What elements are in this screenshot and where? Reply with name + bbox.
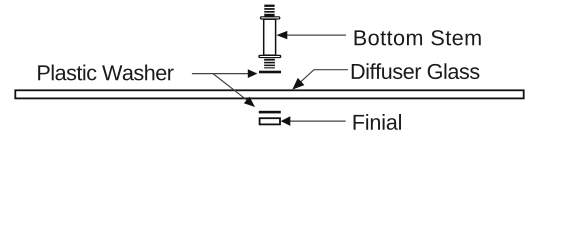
label Diffuser Glass: [352, 63, 480, 79]
leader arrow to diffuser glass: [292, 70, 348, 90]
leader arrow to upper washer: [192, 69, 258, 78]
bottom stem top threads: [264, 5, 274, 17]
leader arrow to lower washer: [213, 74, 255, 107]
bottom stem bottom threads: [264, 59, 275, 69]
diffuser glass: [15, 90, 523, 98]
leader arrow to bottom stem: [276, 31, 346, 39]
bottom stem top collar: [260, 16, 281, 19]
plastic washer (upper): [259, 71, 281, 74]
label Finial: [354, 114, 401, 130]
leader arrow to finial: [281, 116, 346, 126]
bottom stem tube body: [264, 19, 276, 55]
finial body: [260, 118, 280, 124]
label Plastic Washer: [38, 65, 173, 81]
bottom stem bottom collar: [258, 55, 281, 58]
plastic washer (lower): [259, 111, 281, 114]
label Bottom Stem: [355, 30, 481, 45]
